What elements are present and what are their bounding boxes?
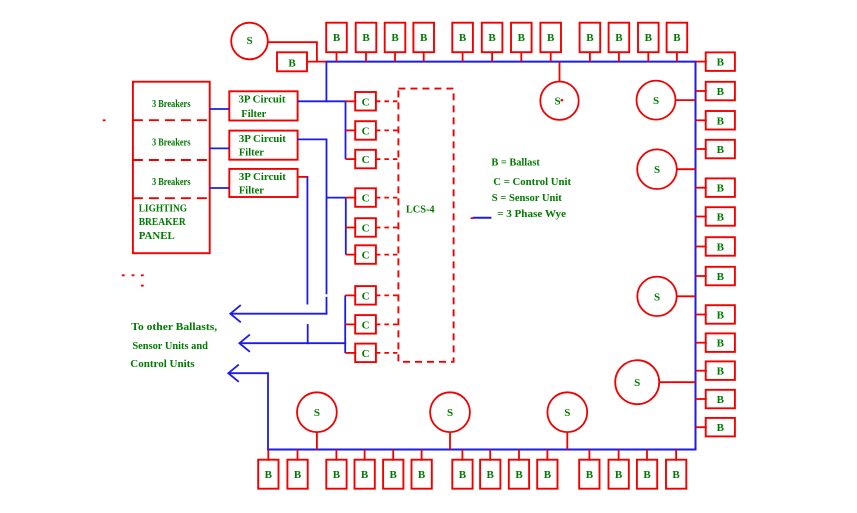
svg-text:C: C bbox=[362, 290, 370, 302]
stray red dots below panel bbox=[122, 275, 144, 285]
svg-text:B: B bbox=[717, 57, 725, 69]
dashed link C5 to LCS-4 bbox=[376, 227, 399, 229]
svg-text:B: B bbox=[288, 57, 296, 69]
wire stub to control unit C3 bbox=[346, 158, 357, 160]
wire stub ballast BT6 bbox=[491, 52, 493, 61]
ballast BT8 (top row) bbox=[540, 23, 561, 53]
wire stub ballast BB14 bbox=[675, 450, 677, 461]
wire sensor S6 to right bus bbox=[659, 381, 695, 383]
svg-text:B: B bbox=[717, 271, 725, 283]
ballast BR10 (right column) bbox=[706, 333, 735, 352]
ballast BB9 (bottom row) bbox=[509, 460, 529, 489]
3P circuit filter F3 bbox=[229, 169, 297, 197]
arrowhead 2 bbox=[239, 335, 250, 352]
svg-text:3 Breakers: 3 Breakers bbox=[152, 98, 191, 110]
wire stub ballast BT4 bbox=[423, 52, 425, 61]
dashed link C9 to LCS-4 bbox=[376, 352, 399, 354]
svg-text:B: B bbox=[333, 32, 341, 44]
wire stub ballast BT9 bbox=[589, 52, 591, 61]
svg-text:S: S bbox=[564, 407, 570, 419]
panel divider dashed line 3 bbox=[133, 197, 210, 199]
dashed link C8 to LCS-4 bbox=[376, 323, 399, 325]
wire stub to control unit C6 bbox=[346, 254, 356, 256]
ballast BR8 (right column) bbox=[706, 267, 735, 286]
sensor unit S1 (top left) bbox=[231, 23, 268, 60]
ballast BT1 (top row) bbox=[326, 23, 347, 53]
svg-text:C = Control Unit: C = Control Unit bbox=[493, 176, 571, 188]
wire stub to control unit C9 bbox=[345, 352, 356, 354]
wire stub ballast BR6 bbox=[696, 216, 707, 218]
svg-text:LCS-4: LCS-4 bbox=[406, 203, 435, 215]
svg-text:B: B bbox=[717, 422, 725, 434]
svg-text:To other Ballasts,: To other Ballasts, bbox=[131, 321, 217, 333]
svg-text:B: B bbox=[547, 32, 555, 44]
svg-text:3P Circuit: 3P Circuit bbox=[239, 133, 286, 145]
ballast BR3 (right column) bbox=[706, 111, 735, 130]
svg-text:B: B bbox=[717, 242, 725, 254]
svg-text:S = Sensor Unit: S = Sensor Unit bbox=[492, 192, 562, 204]
svg-text:B = Ballast: B = Ballast bbox=[491, 157, 540, 169]
wire stub ballast BR7 bbox=[696, 246, 707, 248]
wire stub to control unit C1 bbox=[346, 100, 357, 102]
svg-text:Sensor Units and: Sensor Units and bbox=[132, 340, 208, 352]
wire stub to control unit C7 bbox=[345, 294, 356, 296]
svg-text:B: B bbox=[487, 469, 495, 481]
svg-text:B: B bbox=[420, 32, 428, 44]
svg-text:C: C bbox=[362, 250, 370, 262]
panel divider dashed line 2 bbox=[133, 159, 210, 161]
wire stub ballast BR8 bbox=[696, 275, 707, 277]
svg-text:B: B bbox=[544, 469, 552, 481]
wire stub ballast BB4 bbox=[364, 450, 366, 461]
svg-text:Filter: Filter bbox=[239, 184, 264, 196]
ballast BR2 (right column) bbox=[706, 82, 735, 101]
wire stub to control unit C4 bbox=[346, 197, 356, 199]
svg-text:S: S bbox=[246, 35, 252, 47]
svg-text:3P Circuit: 3P Circuit bbox=[239, 94, 286, 106]
wire stub ballast BB2 bbox=[297, 450, 299, 461]
svg-text:PANEL: PANEL bbox=[139, 230, 175, 242]
legend 3 phase wye sample line bbox=[473, 217, 492, 219]
control unit C7 bbox=[355, 286, 376, 305]
sensor unit S5 (right side) bbox=[637, 277, 676, 316]
wire stub ballast BR3 bbox=[696, 119, 707, 121]
wire stub to control unit C8 bbox=[345, 323, 356, 325]
control unit C3 bbox=[355, 150, 376, 169]
control unit C6 bbox=[355, 245, 376, 263]
svg-text:C: C bbox=[362, 319, 370, 331]
wire sensor S7 to bottom bus bbox=[316, 432, 318, 449]
svg-text:B: B bbox=[586, 469, 594, 481]
svg-text:B: B bbox=[459, 469, 467, 481]
wire stub ballast BB7 bbox=[461, 450, 463, 461]
svg-text:Control Units: Control Units bbox=[130, 358, 195, 370]
ballast BB4 (bottom row) bbox=[355, 460, 375, 489]
ballast BB8 (bottom row) bbox=[480, 460, 500, 489]
wire filter F1 output to node at C1 bbox=[298, 100, 347, 102]
wire stub ballast BB12 bbox=[618, 450, 620, 461]
wire stub ballast BB9 bbox=[518, 450, 520, 461]
svg-text:S: S bbox=[653, 95, 659, 107]
ballast BB7 (bottom row) bbox=[452, 460, 472, 489]
svg-text:B: B bbox=[717, 366, 725, 378]
svg-text:S: S bbox=[654, 164, 660, 176]
wire stub ballast BR9 bbox=[696, 314, 707, 316]
wire stub ballast BB5 bbox=[392, 450, 394, 461]
wire F3 feeder drop stub above arrow wire bbox=[307, 324, 309, 344]
sensor unit S7 (bottom row) bbox=[297, 392, 337, 432]
ballast BT11 (top row) bbox=[638, 23, 659, 53]
svg-text:B: B bbox=[717, 338, 725, 350]
wire stub ballast BB10 bbox=[546, 450, 548, 461]
arrow wire 1 to other units bbox=[230, 313, 327, 315]
wire drop from arrow 3 to bottom bus bbox=[267, 373, 269, 450]
arrowhead 3 bbox=[228, 365, 239, 382]
svg-text:B: B bbox=[586, 32, 594, 44]
wire stub ballast BR5 bbox=[696, 187, 707, 189]
svg-text:C: C bbox=[362, 154, 370, 166]
control unit C4 bbox=[355, 188, 376, 207]
wire stub ballast BB13 bbox=[646, 450, 648, 461]
wire feeder drop C7 to C9 bbox=[344, 295, 346, 353]
wire sensor S1 to bus bbox=[268, 42, 318, 61]
ballast BB5 (bottom row) bbox=[383, 460, 403, 489]
wire stub ballast BR11 bbox=[696, 370, 707, 372]
svg-text:B: B bbox=[333, 469, 341, 481]
svg-text:Filter: Filter bbox=[241, 108, 266, 120]
svg-text:B: B bbox=[391, 32, 399, 44]
sensor unit S8 (bottom row) bbox=[430, 392, 470, 432]
ballast BR6 (right column) bbox=[706, 207, 735, 226]
control unit C2 bbox=[355, 121, 376, 140]
ballast BT5 (top row) bbox=[452, 23, 473, 53]
dashed link C7 to LCS-4 bbox=[376, 294, 399, 296]
svg-text:B: B bbox=[361, 469, 369, 481]
svg-text:3 Breakers: 3 Breakers bbox=[152, 176, 191, 188]
svg-text:BREAKER: BREAKER bbox=[139, 216, 187, 228]
wire stub ballast BB11 bbox=[588, 450, 590, 461]
svg-text:C: C bbox=[362, 223, 370, 235]
svg-text:B: B bbox=[645, 32, 653, 44]
svg-text:C: C bbox=[362, 193, 370, 205]
wire stub ballast BT5 bbox=[462, 52, 464, 61]
wire stub ballast BT1 bbox=[336, 52, 338, 61]
wire F2 feeder drop lower (below break) bbox=[326, 297, 328, 315]
ballast BT12 (top row) bbox=[667, 23, 688, 53]
ballast BB3 (bottom row) bbox=[326, 460, 346, 489]
ballast BB13 (bottom row) bbox=[637, 460, 657, 489]
wire sensor S4 to right bus bbox=[677, 168, 696, 170]
ballast BB14 (bottom row) bbox=[666, 460, 686, 489]
wire stub ballast BT8 bbox=[550, 52, 552, 61]
wire stub ballast BT10 bbox=[618, 52, 620, 61]
ballast BR13 (right column) bbox=[706, 418, 735, 437]
svg-text:3 Breakers: 3 Breakers bbox=[152, 136, 191, 148]
svg-text:C: C bbox=[362, 348, 370, 360]
svg-text:B: B bbox=[515, 469, 523, 481]
svg-text:B: B bbox=[717, 183, 725, 195]
ballast BB2 (bottom row) bbox=[287, 460, 307, 489]
ballast BT4 (top row) bbox=[413, 23, 434, 53]
svg-text:3P Circuit: 3P Circuit bbox=[239, 171, 286, 183]
arrowhead 1 bbox=[230, 305, 241, 322]
ballast BR4 (right column) bbox=[706, 140, 735, 159]
ballast BR9 (right column) bbox=[706, 305, 735, 324]
lighting breaker panel bbox=[133, 82, 210, 254]
panel divider dashed line 1 bbox=[133, 119, 210, 121]
ballast BT10 (top row) bbox=[609, 23, 630, 53]
svg-text:B: B bbox=[717, 212, 725, 224]
note: to other ballasts sensor units and control units bbox=[130, 321, 217, 370]
control unit C9 bbox=[355, 344, 376, 363]
ballast B0 (top left horizontal) bbox=[277, 52, 307, 71]
svg-text:B: B bbox=[294, 469, 302, 481]
svg-text:LIGHTING: LIGHTING bbox=[139, 203, 188, 215]
wire stub ballast BT11 bbox=[647, 52, 649, 61]
svg-text:B: B bbox=[672, 469, 680, 481]
svg-text:B: B bbox=[717, 86, 725, 98]
sensor unit S9 (bottom row) bbox=[547, 392, 587, 432]
wire stub ballast BB6 bbox=[421, 450, 423, 461]
svg-text:B: B bbox=[615, 469, 623, 481]
svg-text:C: C bbox=[362, 125, 370, 137]
svg-text:Filter: Filter bbox=[239, 147, 264, 159]
svg-text:S: S bbox=[554, 96, 560, 108]
wire panel to filter F2 (3 phase) bbox=[210, 147, 230, 149]
sensor unit S2 (hangs from top bus) bbox=[540, 82, 578, 120]
wire feeder drop C1 to C3 bbox=[345, 101, 347, 159]
ballast BB12 (bottom row) bbox=[609, 460, 629, 489]
ballast BT2 (top row) bbox=[356, 23, 377, 53]
top bus (3 phase wye) bbox=[326, 61, 697, 63]
svg-text:C: C bbox=[362, 96, 370, 108]
ballast BT6 (top row) bbox=[482, 23, 503, 53]
arrow wire 3 to other units bbox=[228, 372, 269, 374]
arrow wire 2 to other units bbox=[239, 342, 346, 344]
wire sensor S8 to bottom bus bbox=[449, 432, 451, 449]
wire stub ballast BB1 bbox=[267, 450, 269, 461]
wire panel to filter F3 (3 phase) bbox=[210, 187, 230, 189]
svg-text:B: B bbox=[643, 469, 651, 481]
wire sensor S2 to top bus bbox=[559, 62, 561, 82]
wire sensor S5 to right bus bbox=[677, 295, 696, 297]
wire sensor S3 to right bus bbox=[676, 99, 696, 101]
ballast BR11 (right column) bbox=[706, 361, 735, 380]
dashed link C4 to LCS-4 bbox=[376, 197, 399, 199]
wire stub ballast BR2 bbox=[696, 90, 707, 92]
ballast BR1 (right column) bbox=[706, 52, 735, 71]
ballast BR7 (right column) bbox=[706, 237, 735, 256]
wire stub ballast BT7 bbox=[520, 52, 522, 61]
svg-text:B: B bbox=[362, 32, 370, 44]
wire stub ballast BT12 bbox=[676, 52, 678, 61]
svg-text:S: S bbox=[634, 377, 640, 389]
control unit C8 bbox=[355, 315, 376, 334]
control unit C5 bbox=[355, 218, 376, 237]
ballast BR5 (right column) bbox=[706, 178, 735, 197]
svg-text:B: B bbox=[390, 469, 398, 481]
legend red tick bbox=[471, 217, 473, 219]
svg-text:B: B bbox=[717, 115, 725, 127]
sensor unit S6 (right side) bbox=[615, 360, 659, 404]
ballast BB6 (bottom row) bbox=[412, 460, 432, 489]
legend bbox=[491, 157, 571, 221]
sensor unit S4 (right side) bbox=[637, 149, 677, 189]
wire stub ballast BB3 bbox=[335, 450, 337, 461]
ballast BR12 (right column) bbox=[706, 390, 735, 409]
wire stub ballast BR13 bbox=[696, 426, 707, 428]
svg-text:B: B bbox=[459, 32, 467, 44]
wire stub ballast BR4 bbox=[696, 148, 707, 150]
wire stub ballast BB8 bbox=[489, 450, 491, 461]
svg-text:B: B bbox=[673, 32, 681, 44]
wire stub ballast BR1 bbox=[696, 61, 707, 63]
svg-text:B: B bbox=[265, 469, 273, 481]
LCS-4 controller (dashed box) bbox=[398, 89, 453, 362]
ballast BB1 (bottom row) bbox=[258, 460, 278, 489]
dashed link C1 to LCS-4 bbox=[376, 100, 399, 102]
wire panel to filter F1 (3 phase) bbox=[210, 108, 230, 110]
ballast BB10 (bottom row) bbox=[537, 460, 557, 489]
wire stub ballast BT3 bbox=[394, 52, 396, 61]
dashed link C6 to LCS-4 bbox=[376, 254, 399, 256]
wire feeder drop C4 to C6 bbox=[345, 198, 347, 255]
wire F3 feeder drop bbox=[306, 177, 308, 305]
stray red tick left of panel bbox=[103, 119, 106, 121]
wire stub to control unit C5 bbox=[346, 227, 356, 229]
bottom bus (3 phase wye) bbox=[267, 449, 696, 451]
3P circuit filter F2 bbox=[229, 131, 297, 160]
svg-text:= 3 Phase Wye: = 3 Phase Wye bbox=[497, 208, 566, 220]
svg-text:S: S bbox=[654, 291, 660, 303]
svg-text:B: B bbox=[518, 32, 526, 44]
wire ballast B0 to bus bbox=[307, 61, 327, 63]
wire top bus drop to F1 feeder bbox=[325, 62, 327, 103]
dashed link C2 to LCS-4 bbox=[376, 129, 399, 131]
dashed link C3 to LCS-4 bbox=[376, 158, 399, 160]
ballast BT9 (top row) bbox=[580, 23, 601, 53]
ballast BB11 (bottom row) bbox=[579, 460, 599, 489]
wire filter F3 output red segment bbox=[298, 176, 309, 178]
ballast BT3 (top row) bbox=[385, 23, 406, 53]
svg-text:B: B bbox=[717, 394, 725, 406]
wire F2 feeder drop upper bbox=[326, 139, 328, 294]
svg-text:B: B bbox=[418, 469, 426, 481]
wire filter F2 output bbox=[298, 138, 328, 140]
control unit C1 bbox=[355, 92, 376, 111]
ballast BT7 (top row) bbox=[511, 23, 532, 53]
svg-text:S: S bbox=[314, 407, 320, 419]
svg-text:B: B bbox=[717, 144, 725, 156]
svg-text:B: B bbox=[488, 32, 496, 44]
wire stub ballast BR10 bbox=[696, 342, 707, 344]
sensor unit S3 (right side) bbox=[637, 81, 676, 120]
wire sensor S9 to bottom bus bbox=[566, 432, 568, 449]
wire branch to C4 group bbox=[327, 197, 346, 199]
wire stub ballast BR12 bbox=[696, 398, 707, 400]
wire stub to control unit C2 bbox=[346, 129, 357, 131]
svg-text:B: B bbox=[615, 32, 623, 44]
right bus (3 phase wye) bbox=[695, 62, 697, 451]
wire stub ballast BT2 bbox=[365, 52, 367, 61]
svg-text:S: S bbox=[447, 407, 453, 419]
svg-text:B: B bbox=[717, 310, 725, 322]
3P circuit filter F1 bbox=[229, 91, 297, 120]
